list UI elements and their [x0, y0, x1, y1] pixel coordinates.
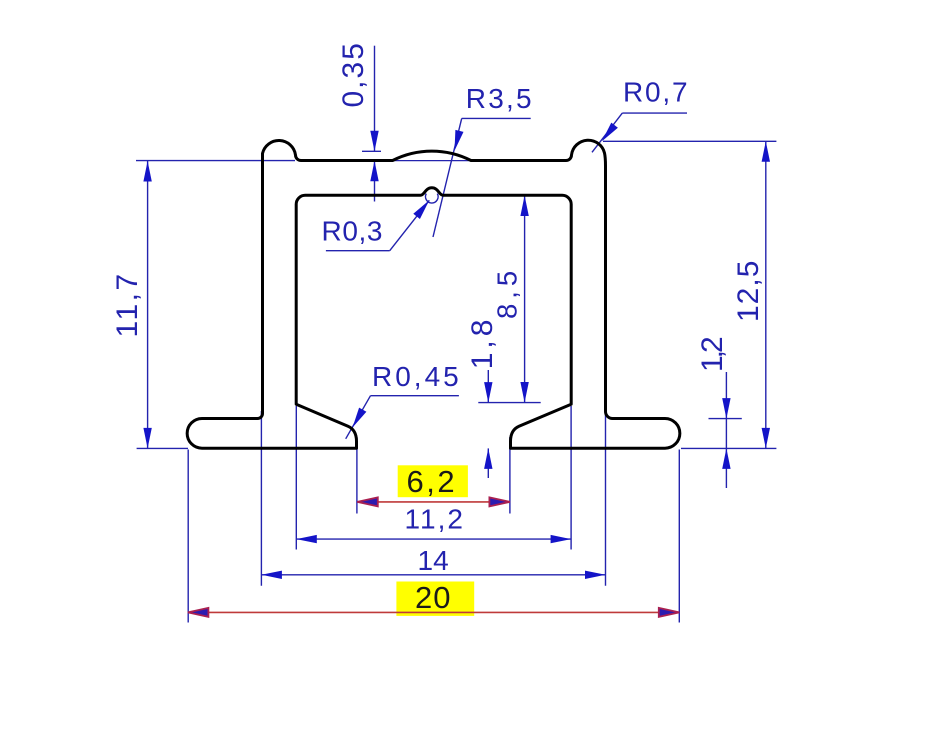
- leader R0,7 line: [592, 113, 622, 152]
- extension line ear top right (12,5 top): [603, 140, 776, 142]
- yellow highlight 20: [396, 582, 474, 616]
- svg-text:11,7: 11,7: [111, 271, 144, 337]
- svg-text:12,5: 12,5: [732, 260, 765, 322]
- leader R0,3 line: [390, 200, 430, 250]
- extension line bottom right (12,5 bottom): [681, 447, 776, 449]
- svg-text:1,2: 1,2: [696, 337, 729, 372]
- leader R0,45 arrow: [353, 408, 367, 428]
- dimension 1,8 lower arrow: [487, 448, 489, 478]
- extension line 6,2 right: [509, 437, 511, 514]
- dimension 1,2 upper arrow: [725, 372, 727, 419]
- tick at bump top: [362, 150, 381, 152]
- svg-text:1,8: 1,8: [466, 316, 499, 370]
- svg-text:R0,7: R0,7: [623, 77, 689, 108]
- extension line 11,2 right: [570, 406, 572, 550]
- yellow highlight 6,2: [398, 465, 468, 497]
- dimension 1,2 mid segment: [725, 419, 727, 449]
- leader R0,45 line: [346, 396, 371, 439]
- extension line top surface left (11,7 top): [136, 160, 295, 162]
- dimension 0,35 upper line: [374, 46, 376, 152]
- leader R3,5 arrow: [455, 130, 464, 151]
- leader R0,7 arrow: [602, 123, 618, 142]
- dimension line 11,2: [296, 538, 571, 540]
- svg-text:R0,45: R0,45: [372, 361, 462, 392]
- extension line 20 left: [187, 450, 189, 623]
- extension line 14 right: [605, 412, 607, 586]
- extension tick 1,2 top: [709, 418, 742, 420]
- dimension line 8,5: [524, 196, 526, 403]
- extension line 14 left: [260, 411, 262, 586]
- leader R0,7 underline: [622, 112, 687, 114]
- dimension line 6,2 (red): [357, 501, 510, 503]
- dimension line 14: [261, 574, 605, 576]
- svg-text:20: 20: [415, 580, 451, 615]
- leader R0,45 underline: [371, 395, 459, 397]
- dimension 0,35 lower line: [374, 161, 376, 202]
- svg-text:6,2: 6,2: [407, 464, 458, 499]
- leader R3,5 line: [433, 118, 462, 237]
- dimension 1,2 lower arrow: [725, 448, 727, 488]
- dimension line 11,7: [147, 161, 149, 448]
- svg-text:0,35: 0,35: [337, 41, 370, 107]
- extension line 6,2 left: [356, 437, 358, 514]
- svg-text:11,2: 11,2: [405, 504, 465, 535]
- dimension line 12,5: [765, 141, 767, 448]
- extension line under bump: [364, 160, 490, 162]
- extension line 11,2 left: [295, 406, 297, 550]
- svg-text:14: 14: [418, 545, 449, 576]
- notch radius circle R0,3: [425, 194, 438, 203]
- extension line 20 right: [678, 450, 680, 623]
- dimension 1,8 upper arrow: [487, 370, 489, 403]
- leader R3,5 underline: [462, 117, 531, 119]
- svg-text:R0,3: R0,3: [322, 216, 384, 247]
- dimension line 20 (red): [188, 611, 679, 613]
- svg-text:8,5: 8,5: [492, 266, 523, 319]
- extension tick 8,5 bottom: [478, 402, 540, 404]
- extension line bottom left (11,7 bottom): [137, 447, 188, 449]
- leader R0,3 underline: [326, 250, 390, 252]
- svg-text:R3,5: R3,5: [466, 83, 534, 114]
- profile outline: [187, 140, 680, 448]
- leader R0,3 arrow: [413, 200, 429, 219]
